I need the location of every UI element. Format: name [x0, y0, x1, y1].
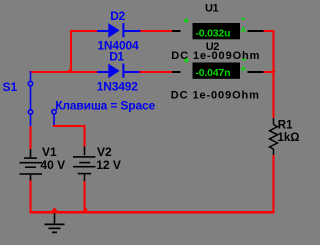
wire: S1 pole to V1 — [30, 126, 32, 149]
svg-text:1kΩ: 1kΩ — [278, 132, 300, 144]
junction at D1/D2 branch — [68, 68, 72, 72]
svg-text:R1: R1 — [278, 120, 293, 132]
wire: bottom rail — [30, 211, 275, 213]
svg-text:DC 1e-009Ohm: DC 1e-009Ohm — [171, 90, 260, 102]
wire: U2 to right riser — [264, 71, 273, 73]
svg-text:S1: S1 — [3, 80, 18, 94]
svg-text:Клавиша = Space: Клавиша = Space — [55, 98, 155, 112]
svg-text:12 V: 12 V — [96, 158, 121, 172]
junction at ground tap — [52, 207, 58, 211]
svg-text:1N3492: 1N3492 — [97, 80, 139, 94]
battery V1 — [20, 149, 43, 181]
wire: D2 cathode to U1 — [141, 30, 173, 32]
diode D2 — [97, 23, 141, 38]
switch S1 — [28, 71, 56, 126]
wire: D2 row from riser to D2 anode — [70, 30, 97, 32]
wire: right riser down to R1 — [273, 30, 275, 118]
junction at U2/R1 branch — [272, 68, 276, 72]
wire: U1 to right riser — [264, 30, 275, 32]
diode D1 — [97, 64, 140, 79]
resistor R1 — [270, 118, 278, 155]
svg-text:-0.047n: -0.047n — [196, 67, 231, 79]
svg-text:40 V: 40 V — [40, 158, 65, 172]
wire: down to V2 top — [84, 125, 86, 146]
svg-text:U1: U1 — [205, 3, 219, 15]
battery V2 — [73, 147, 96, 182]
wire: riser from junction up to D2 row — [70, 30, 72, 73]
svg-text:D1: D1 — [109, 49, 124, 63]
ammeter U1 — [172, 18, 264, 40]
wire: switch S1 top to D1 anode (horizontal net) — [30, 71, 98, 73]
svg-text:D2: D2 — [110, 9, 125, 23]
svg-text:-0.032u: -0.032u — [196, 28, 231, 40]
wire: V2 to bottom rail — [84, 181, 86, 213]
ground — [45, 213, 65, 233]
svg-text:A: A — [241, 64, 247, 73]
wire: V1 to bottom rail — [30, 181, 32, 214]
svg-text:U2: U2 — [206, 41, 220, 53]
wire: R1 to bottom rail — [273, 155, 275, 213]
svg-text:A: A — [241, 25, 247, 34]
wire: D1 cathode to U2 — [140, 71, 173, 73]
junction at V2 tap — [83, 208, 87, 211]
ammeter U2 — [172, 58, 264, 79]
wire: S1 throw to V2 (horizontal) — [53, 125, 86, 127]
